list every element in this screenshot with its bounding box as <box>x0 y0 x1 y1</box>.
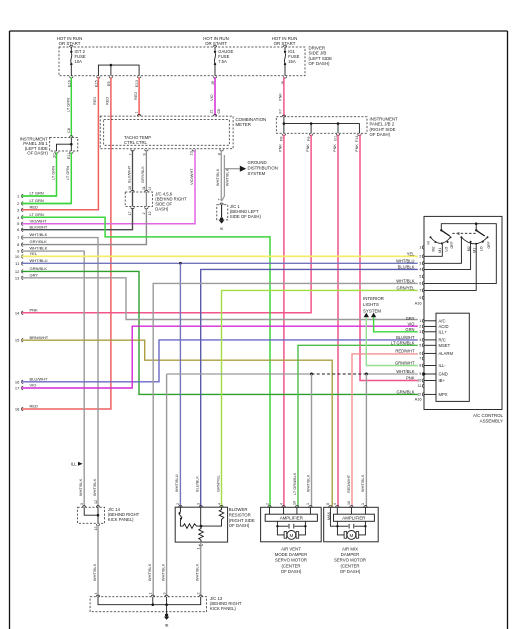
wire BLK/WHT J/C456 to left pin 6 <box>22 208 133 230</box>
svg-text:RED: RED <box>133 92 138 100</box>
contact <box>460 236 462 238</box>
svg-text:2: 2 <box>142 213 146 215</box>
wire GRY/BLK J/C456 to left pin 8 <box>22 208 147 245</box>
wire WHT/BLK J/C14 to J/C13 <box>97 525 99 596</box>
svg-text:ACID: ACID <box>439 324 449 329</box>
junction at switch top <box>475 222 478 225</box>
wire PNK J/B2 to left pin 14 <box>22 135 312 313</box>
svg-text:2: 2 <box>419 325 421 329</box>
A/C amplifier unit box <box>436 313 469 401</box>
svg-text:3: 3 <box>80 503 84 505</box>
contact <box>482 241 484 243</box>
wire bus bracket in J/B <box>98 65 139 76</box>
svg-text:AMPLIFIER: AMPLIFIER <box>280 515 303 520</box>
wire M1 left to pin 2 YEL <box>424 244 442 257</box>
wire VIO/WHT meter to left pin 5 <box>22 150 196 224</box>
wire through J/C456 right <box>145 192 147 207</box>
contact <box>475 243 477 245</box>
svg-text:13: 13 <box>94 527 98 531</box>
motor feed right <box>355 525 366 527</box>
left wiper pivot <box>440 229 442 231</box>
svg-text:5: 5 <box>419 275 421 279</box>
svg-text:13: 13 <box>15 275 20 280</box>
junction GND <box>423 373 426 376</box>
svg-text:WHT/BLK: WHT/BLK <box>147 563 152 581</box>
right wiper pivot <box>475 229 477 231</box>
svg-text:R/C: R/C <box>439 337 446 342</box>
wire BLU/WHT pin16 to A/C pin 4 <box>22 340 418 382</box>
svg-text:BRN/WHT: BRN/WHT <box>30 335 49 340</box>
svg-text:GRN/YEL: GRN/YEL <box>397 286 416 291</box>
bus inside J/B2 <box>284 124 360 134</box>
svg-text:GRY: GRY <box>30 272 39 277</box>
svg-text:YEL: YEL <box>30 251 38 256</box>
pin stub GND <box>424 373 436 375</box>
svg-text:PNK: PNK <box>278 144 283 152</box>
svg-text:PNK: PNK <box>30 307 39 312</box>
svg-text:M: M <box>349 533 353 538</box>
svg-text:10: 10 <box>15 254 20 259</box>
svg-text:HOT IN RUNOR START: HOT IN RUNOR START <box>57 36 83 46</box>
svg-text:1: 1 <box>306 503 310 505</box>
svg-text:WHT/BLK: WHT/BLK <box>396 279 414 284</box>
junction WHT/BLU <box>179 262 182 265</box>
svg-text:4: 4 <box>419 268 421 272</box>
junction in J/B1 <box>70 143 73 146</box>
wire inside J/B1 <box>57 137 72 151</box>
svg-text:10: 10 <box>128 186 132 190</box>
wire inside J/B2 <box>283 117 285 133</box>
wire WHT/BLK pin7 to J/C14 <box>22 238 99 507</box>
svg-text:8: 8 <box>326 503 330 505</box>
svg-text:F14: F14 <box>355 135 359 142</box>
svg-text:GRY: GRY <box>406 316 415 321</box>
svg-text:ALARM: ALARM <box>439 351 454 356</box>
svg-text:4: 4 <box>279 503 283 505</box>
junction <box>283 122 286 125</box>
wire BLU/BLK A/C pin4 to blower resistor <box>201 269 418 506</box>
svg-text:LT GRN: LT GRN <box>65 98 70 112</box>
svg-text:WHT/BLK: WHT/BLK <box>92 478 97 496</box>
svg-text:VIO/WHT: VIO/WHT <box>30 218 48 223</box>
wire LT GRN/BLK A/C pin5 to air vent servo <box>298 345 418 506</box>
pin stub MPX <box>424 393 436 395</box>
wire WHT/BLU to blower resistor <box>179 263 181 507</box>
wire WHT/BLK to air mix servo <box>365 374 367 507</box>
amplifier box <box>334 514 375 521</box>
wire PNK J/B2 to air mix servo <box>337 135 339 507</box>
svg-text:BLU/WHT: BLU/WHT <box>30 376 49 381</box>
svg-text:7: 7 <box>128 153 132 155</box>
svg-text:11: 11 <box>417 384 421 388</box>
junction <box>310 122 313 125</box>
svg-text:WHT/BLU: WHT/BLU <box>174 474 179 492</box>
svg-text:GRN/BLK: GRN/BLK <box>30 266 48 271</box>
junction <box>152 603 155 606</box>
svg-text:BLU/BLK: BLU/BLK <box>195 476 200 492</box>
svg-text:WHT/BLU: WHT/BLU <box>396 259 414 264</box>
svg-text:3: 3 <box>419 262 421 266</box>
svg-text:VIO/WHT: VIO/WHT <box>189 168 194 185</box>
arrow from interior lights (GRN/WHT) <box>364 313 369 318</box>
svg-text:IB: IB <box>165 624 169 628</box>
resistor element bottom <box>199 526 204 542</box>
svg-text:WHT/BLK: WHT/BLK <box>30 246 48 251</box>
svg-text:3: 3 <box>162 593 166 595</box>
junction <box>337 122 340 125</box>
motor circle <box>347 531 356 540</box>
svg-text:LT GRN/BLK: LT GRN/BLK <box>292 472 297 495</box>
svg-text:ILL: ILL <box>71 462 77 467</box>
svg-text:LT GRN: LT GRN <box>30 191 44 196</box>
wire WHT/BLU pin11 to A/C pin 3 <box>22 262 418 264</box>
svg-text:YEL: YEL <box>407 252 415 257</box>
ground symbol IB <box>165 614 168 617</box>
wire WHT/BLK meter to J/C1 <box>220 150 222 201</box>
svg-text:GRN: GRN <box>405 327 414 332</box>
brush left <box>284 532 287 539</box>
svg-text:BLU/WHT: BLU/WHT <box>396 335 415 340</box>
svg-text:F8: F8 <box>280 137 284 141</box>
wire to ground IK <box>221 205 223 217</box>
wire WHT/BLK down to J/C13 <box>166 374 168 596</box>
svg-text:WHT/BLK: WHT/BLK <box>160 563 165 581</box>
wire M1 right to pin 7 <box>424 244 476 290</box>
pin stub ILL+ <box>424 331 436 333</box>
motor feed left <box>337 525 348 527</box>
dashed link between servo grounds <box>312 373 367 375</box>
wire PNK fuse to J/B2 <box>283 77 285 116</box>
svg-text:WHT/BLK: WHT/BLK <box>92 563 97 581</box>
junction <box>165 603 168 606</box>
left wiper arm <box>441 230 450 236</box>
svg-text:G1: G1 <box>334 136 338 141</box>
svg-text:BLK/WHT: BLK/WHT <box>30 224 48 229</box>
junction connector J/C 14 <box>78 507 105 523</box>
wire RED to left pin 18 <box>22 77 111 409</box>
svg-text:GRY/BLK: GRY/BLK <box>30 239 48 244</box>
wire WHT/BLK A/C pin6 to J/C13 <box>153 283 418 595</box>
svg-text:9: 9 <box>142 153 146 155</box>
svg-text:7: 7 <box>419 357 421 361</box>
svg-text:J4: J4 <box>148 187 152 191</box>
component: blower resistor box <box>175 507 227 542</box>
middle tap <box>200 507 202 526</box>
svg-text:RED/WHT: RED/WHT <box>395 349 415 354</box>
junction connector J/C 13 <box>90 597 207 612</box>
junction in resistor <box>200 525 203 528</box>
svg-text:PNK: PNK <box>278 93 283 101</box>
right wiper arm <box>476 230 485 236</box>
stub to amplifier <box>364 507 366 514</box>
svg-text:F7: F7 <box>279 109 283 113</box>
right switch contact arc <box>461 237 487 244</box>
stub to amplifier <box>309 507 311 514</box>
wire RED fuse to combination meter <box>138 77 140 115</box>
svg-text:14: 14 <box>15 310 20 315</box>
svg-text:9: 9 <box>419 372 421 376</box>
svg-text:7: 7 <box>217 199 221 201</box>
junction block: driver side J/B dashed box <box>59 47 305 76</box>
svg-text:5: 5 <box>419 344 421 348</box>
svg-text:HI: HI <box>457 232 461 236</box>
svg-text:A16: A16 <box>415 300 422 305</box>
svg-text:RED/WHT: RED/WHT <box>346 474 351 493</box>
pin stub IB+ <box>424 380 436 382</box>
svg-text:ILL+: ILL+ <box>439 329 448 334</box>
stub to amplifier <box>350 507 352 514</box>
wire GRN/YEL A/C pin7 to blower resistor <box>222 290 418 506</box>
svg-text:M1: M1 <box>438 248 442 253</box>
wire VIO gauge fuse to combination meter <box>214 77 216 115</box>
brush right <box>296 532 299 539</box>
svg-text:1: 1 <box>149 593 153 595</box>
svg-text:WHT/BLK: WHT/BLK <box>396 369 414 374</box>
junction block: instrument panel J/B2 <box>276 117 367 133</box>
component: air mix damper servo motor <box>324 507 379 542</box>
svg-text:17: 17 <box>15 386 20 391</box>
stub to amplifier <box>296 507 298 514</box>
wire HI right to pin 3 <box>424 238 461 263</box>
svg-text:15: 15 <box>15 338 20 343</box>
svg-text:VIO: VIO <box>407 322 414 327</box>
svg-text:7: 7 <box>419 289 421 293</box>
pin stub A/C <box>424 320 436 322</box>
svg-text:9: 9 <box>419 296 421 300</box>
svg-text:WHT/BLK: WHT/BLK <box>30 232 48 237</box>
component: combination meter outer dashed box <box>100 116 233 149</box>
svg-text:12: 12 <box>148 212 152 216</box>
wire GRN interior lights to A/C pin 3 <box>374 317 418 332</box>
svg-text:GRY/BLK: GRY/BLK <box>140 166 145 183</box>
amplifier box <box>265 514 317 521</box>
svg-text:11: 11 <box>142 186 146 190</box>
svg-text:MSET: MSET <box>439 343 451 348</box>
svg-text:6: 6 <box>419 352 421 356</box>
svg-text:1: 1 <box>419 319 421 323</box>
wire LT GRN J/B1 to left pin 1 <box>22 153 57 197</box>
svg-text:PNK: PNK <box>406 376 415 381</box>
svg-text:6: 6 <box>419 282 421 286</box>
svg-text:IB+: IB+ <box>439 378 446 383</box>
svg-text:LO: LO <box>480 246 484 251</box>
wire inside J/C14 <box>84 507 98 515</box>
resistor element right <box>201 507 224 526</box>
component: A/C control assembly box <box>424 216 502 409</box>
svg-text:BLU/BLK: BLU/BLK <box>398 265 415 270</box>
svg-text:IK: IK <box>220 227 224 231</box>
svg-text:1: 1 <box>196 548 200 550</box>
svg-text:2: 2 <box>419 255 421 259</box>
svg-text:GRN/WHT: GRN/WHT <box>395 361 415 366</box>
pin stub MSET <box>424 344 436 346</box>
wire GRN/BLK pin12 to A/C pin 12 <box>22 271 418 394</box>
svg-text:RED: RED <box>92 97 97 105</box>
svg-text:10: 10 <box>293 501 297 505</box>
wire WHT/BLK J/C13 riser to servo junction <box>167 373 312 375</box>
svg-text:WHT/BLK: WHT/BLK <box>360 474 365 492</box>
contact <box>470 241 472 243</box>
svg-text:WHT/BLK: WHT/BLK <box>305 474 310 492</box>
wire BLK/WHT meter to J/C456 <box>132 150 134 191</box>
motor feed right <box>295 525 306 527</box>
svg-text:4: 4 <box>217 503 221 505</box>
svg-text:C8: C8 <box>67 128 71 133</box>
svg-text:12: 12 <box>94 500 98 504</box>
svg-text:1: 1 <box>419 246 421 250</box>
svg-text:M2: M2 <box>432 247 436 252</box>
wire GRY/BLK meter to J/C456 <box>145 150 147 191</box>
contact <box>450 236 452 238</box>
wire WHT/BLK meter branch to ground dist <box>222 155 225 201</box>
svg-text:BLK/WHT: BLK/WHT <box>126 165 131 183</box>
junction in J/B bus <box>110 64 113 67</box>
junction connector J/C 4,5,6 <box>125 192 152 207</box>
wire LT GRN fuse to J/B1 <box>70 77 72 136</box>
svg-text:HI: HI <box>426 241 430 245</box>
svg-text:GRN/YEL: GRN/YEL <box>215 474 220 492</box>
svg-text:OFF: OFF <box>487 241 491 249</box>
svg-text:10: 10 <box>190 151 194 155</box>
wire BRN/WHT pin15 to air mix servo <box>22 340 333 506</box>
svg-text:10: 10 <box>417 379 421 383</box>
svg-text:A16: A16 <box>415 397 422 402</box>
bus inside J/C13 <box>98 597 201 605</box>
pin stub ALARM <box>424 352 436 354</box>
svg-text:AMPLIFIER: AMPLIFIER <box>342 515 365 520</box>
fuse IGT2 10A <box>70 47 72 51</box>
svg-text:16: 16 <box>15 379 20 384</box>
blower switch common feed to pin 6 <box>424 224 496 284</box>
pin stub R/C <box>424 339 436 341</box>
svg-text:8: 8 <box>419 364 421 368</box>
capacitor symbol <box>289 524 294 529</box>
svg-text:WHT/BLK: WHT/BLK <box>195 563 200 581</box>
svg-text:F9: F9 <box>307 137 311 141</box>
contact <box>441 242 443 244</box>
combination meter inner dashed box <box>104 120 230 146</box>
left switch contact arc <box>431 237 451 243</box>
brush right <box>356 532 359 539</box>
component: air vent mode damper servo motor <box>261 507 322 542</box>
wire GRY pin13 to A/C pin 1 <box>22 278 418 320</box>
svg-text:VIO: VIO <box>30 383 37 388</box>
contact <box>434 241 436 243</box>
pin stub ILL- <box>424 365 436 367</box>
svg-text:2: 2 <box>265 503 269 505</box>
brush left <box>344 532 347 539</box>
stub around amplifier <box>330 507 337 526</box>
svg-text:WHT/BLU: WHT/BLU <box>30 258 48 263</box>
junction connector J/C 1 <box>217 205 228 220</box>
svg-text:LT GRN: LT GRN <box>30 198 44 203</box>
wire WHT/BLK to A/C pin 9 <box>366 373 417 375</box>
svg-text:WHT/BLK: WHT/BLK <box>225 168 230 186</box>
svg-text:OFF: OFF <box>450 241 454 249</box>
thermal fuse <box>179 507 182 523</box>
wire RED to left pin 3 <box>22 77 99 210</box>
svg-text:E11: E11 <box>67 153 71 159</box>
capacitor symbol <box>349 524 354 529</box>
fuse GAUGE 7.5A <box>214 47 216 51</box>
stub to amplifier <box>336 507 338 514</box>
wire LT GRN J/B1 to left pin 2 <box>22 153 72 204</box>
svg-text:2: 2 <box>176 503 180 505</box>
svg-text:10: 10 <box>347 501 351 505</box>
svg-text:21: 21 <box>210 109 214 113</box>
mechanical link dashed <box>452 232 476 234</box>
junction in J/C14 <box>97 514 100 517</box>
svg-text:LT GRN/BLK: LT GRN/BLK <box>391 341 415 346</box>
contact <box>487 236 489 238</box>
contact <box>447 241 449 243</box>
junction block: instrument panel J/B1 <box>50 137 78 151</box>
wire WHT/BLK pin9 to J/C14 <box>22 251 85 507</box>
wire drop to E9 <box>110 65 112 76</box>
wire WHT/BLK to air vent servo <box>311 374 313 507</box>
wire LT GRN pin4 to air vent servo <box>22 217 271 506</box>
svg-text:HOT IN RUNOR START: HOT IN RUNOR START <box>272 36 298 46</box>
wire to ground IB <box>166 612 168 614</box>
wire PNK J/B2 to A/C pin 10 <box>360 135 418 381</box>
svg-text:PNK: PNK <box>354 144 359 152</box>
svg-text:ILL-: ILL- <box>439 363 447 368</box>
svg-text:18: 18 <box>15 407 20 412</box>
wire VIO pin17 to A/C pin 2 <box>22 326 418 388</box>
ground symbol IK <box>220 217 223 220</box>
svg-text:12: 12 <box>15 269 20 274</box>
fuse IG1 15A <box>284 47 286 51</box>
wire pin2 stub <box>22 203 72 205</box>
svg-text:3: 3 <box>419 330 421 334</box>
svg-text:GRN/BLK: GRN/BLK <box>397 390 415 395</box>
svg-text:LT GRN: LT GRN <box>30 212 44 217</box>
pin stub ACID <box>424 325 436 327</box>
wire through J/C456 left <box>132 192 134 207</box>
junction <box>310 373 313 376</box>
resistor element horizontal <box>180 523 201 528</box>
arrow ILL <box>78 462 83 466</box>
arrow to ground distribution system <box>240 166 246 172</box>
wire M2 right to pin 4 <box>424 242 471 269</box>
svg-text:17: 17 <box>128 212 132 216</box>
svg-text:C8: C8 <box>217 109 221 114</box>
wire RED/WHT A/C pin6 to air mix servo <box>352 354 418 507</box>
svg-text:MPX: MPX <box>439 392 448 397</box>
svg-text:2: 2 <box>197 593 201 595</box>
motor circle <box>287 531 296 540</box>
svg-text:A/C: A/C <box>439 318 446 323</box>
svg-text:WHT/BLK: WHT/BLK <box>78 478 83 496</box>
svg-text:HOT IN RUNOR START: HOT IN RUNOR START <box>203 36 229 46</box>
contact <box>430 236 432 238</box>
svg-text:RED: RED <box>30 404 39 409</box>
svg-text:M: M <box>289 533 293 538</box>
svg-text:GND: GND <box>439 372 448 377</box>
motor feed left <box>277 525 288 527</box>
svg-text:1: 1 <box>135 111 139 113</box>
stub to amplifier <box>269 507 271 514</box>
svg-text:PNK: PNK <box>305 144 310 152</box>
svg-text:4: 4 <box>94 593 98 595</box>
svg-text:RED: RED <box>105 97 110 105</box>
svg-text:RED: RED <box>30 204 39 209</box>
wire WHT/BLK blower resistor to J/C13 <box>200 542 202 596</box>
svg-text:WHT/BLK: WHT/BLK <box>215 168 220 186</box>
wire pin1 stub <box>22 195 57 197</box>
svg-text:LT GRN: LT GRN <box>50 166 55 180</box>
svg-text:4: 4 <box>333 503 337 505</box>
